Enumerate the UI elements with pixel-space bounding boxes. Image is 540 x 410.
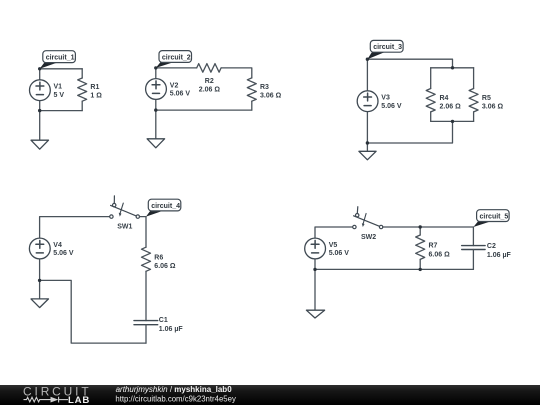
ground c5 <box>306 310 324 318</box>
wire parallel bottom rail c3 <box>431 120 474 122</box>
svg-text:C1: C1 <box>159 317 168 324</box>
value label R6 <box>154 255 176 271</box>
wire bottom rail c5 <box>315 268 473 270</box>
wire top right c2 <box>221 68 252 78</box>
junction node c1 top <box>38 67 41 70</box>
wire resistor drop c1 <box>81 69 83 78</box>
resistor R3 <box>247 78 256 101</box>
wire ground stem c3 <box>366 143 368 151</box>
wire ground stem c1 <box>39 111 41 141</box>
junction node c1 bottom <box>38 109 41 112</box>
node label circuit_4 <box>146 199 181 216</box>
svg-text:V2: V2 <box>170 83 179 90</box>
wire R5 bottom lead <box>473 112 475 122</box>
ground c2 <box>147 139 165 148</box>
junction node c5 R7 bottom <box>419 268 422 271</box>
svg-text:arthurjmyshkin / myshkina_lab0: arthurjmyshkin / myshkina_lab0 <box>116 385 233 394</box>
value label C1 <box>159 317 184 333</box>
resistor R4 <box>426 89 435 112</box>
wire R3 bottom c2 <box>251 101 253 110</box>
junction node c2 top <box>154 66 157 69</box>
wire C1 bottom c4 <box>145 325 147 343</box>
svg-text:5.06 V: 5.06 V <box>170 91 191 98</box>
junction node c2 bottom <box>154 108 157 111</box>
wire top left c2 <box>156 67 197 69</box>
junction node c3 top <box>366 58 369 61</box>
junction node c5 ground <box>313 268 316 271</box>
wire C2 top lead <box>472 227 474 246</box>
capacitor C1 <box>134 321 158 325</box>
voltage source V5 <box>305 238 326 259</box>
ground c3 <box>359 151 376 160</box>
svg-text:C2: C2 <box>487 243 496 250</box>
value label C2 <box>487 243 512 259</box>
value label V2 <box>170 83 191 98</box>
junction node c3 branch top <box>451 66 454 69</box>
value label V5 <box>329 242 350 257</box>
wire bottom rail c4 <box>40 280 146 343</box>
capacitor C2 <box>462 246 485 250</box>
svg-text:1.06 µF: 1.06 µF <box>487 252 512 259</box>
wire R7 bottom lead <box>419 259 421 269</box>
value label R5 <box>482 95 504 111</box>
svg-text:SW2: SW2 <box>361 234 376 241</box>
wire V1 top lead <box>39 69 41 80</box>
ground c4 <box>31 299 49 308</box>
switch SW2 <box>353 207 383 229</box>
node label circuit_3 <box>367 40 403 59</box>
svg-text:1 Ω: 1 Ω <box>90 93 102 100</box>
svg-text:V3: V3 <box>381 95 390 102</box>
CircuitLab logo symbol <box>24 397 69 403</box>
wire V4 bottom lead <box>39 259 41 280</box>
svg-text:R3: R3 <box>260 84 269 91</box>
value label R1 <box>90 84 102 99</box>
svg-text:LAB: LAB <box>68 395 90 405</box>
wire ground stem c2 <box>155 110 157 139</box>
junction node c5 top <box>419 225 422 228</box>
svg-text:R7: R7 <box>429 243 438 250</box>
svg-text:5 V: 5 V <box>54 92 65 99</box>
value label R4 <box>440 95 462 111</box>
svg-text:R1: R1 <box>90 84 99 91</box>
CircuitLab logo wordmark <box>23 385 92 399</box>
node label circuit_5 <box>473 210 509 227</box>
value label R3 <box>260 84 282 99</box>
node label circuit_1 <box>40 51 76 69</box>
svg-text:circuit_1: circuit_1 <box>46 54 75 61</box>
node label circuit_2 <box>156 51 192 68</box>
svg-text:V4: V4 <box>53 242 62 249</box>
wire R7 to C2 <box>420 226 473 228</box>
svg-text:5.06 V: 5.06 V <box>329 250 350 257</box>
svg-text:3.06 Ω: 3.06 Ω <box>260 93 282 100</box>
svg-text:R5: R5 <box>482 95 491 102</box>
ground c1 <box>31 140 49 149</box>
svg-text:circuit_5: circuit_5 <box>480 213 509 220</box>
svg-text:5.06 V: 5.06 V <box>381 103 402 110</box>
wire top rail left c5 <box>315 227 353 238</box>
svg-text:V1: V1 <box>54 84 63 91</box>
svg-text:1.06 µF: 1.06 µF <box>159 326 184 333</box>
wire ground stem c4 <box>39 280 41 299</box>
junction node c3 branch bottom <box>451 120 454 123</box>
svg-text:circuit_3: circuit_3 <box>373 44 402 51</box>
svg-text:http://circuitlab.com/c9k23ntr: http://circuitlab.com/c9k23ntr4e5ey <box>115 394 236 403</box>
svg-text:SW1: SW1 <box>117 224 132 231</box>
resistor R6 <box>142 247 151 271</box>
svg-text:2.06 Ω: 2.06 Ω <box>199 87 221 94</box>
switch SW1 <box>110 196 140 218</box>
wire top rail c3 <box>367 59 452 68</box>
wire R6 to C1 <box>145 271 147 320</box>
svg-text:5.06 V: 5.06 V <box>53 250 74 257</box>
svg-text:R6: R6 <box>154 255 163 262</box>
wire SW1 to R6 <box>140 217 147 248</box>
resistor R1 <box>78 78 87 101</box>
wire top rail left c4 <box>40 217 110 238</box>
svg-text:R4: R4 <box>440 95 449 102</box>
svg-text:V5: V5 <box>329 242 338 249</box>
wire ground stem c5 <box>314 269 316 310</box>
svg-text:6.06 Ω: 6.06 Ω <box>154 263 176 270</box>
value label V1 <box>54 84 65 99</box>
wire V3 bottom lead <box>366 112 368 143</box>
value label R7 <box>429 243 451 259</box>
wire bottom rail c1 <box>40 110 82 112</box>
wire SW2 to R7 <box>383 226 420 228</box>
junction node c4 <box>38 279 41 282</box>
voltage source V3 <box>357 91 378 112</box>
wire C2 bottom lead <box>472 250 474 270</box>
wire parallel top rail c3 <box>431 67 474 69</box>
resistor R7 <box>416 235 425 259</box>
svg-text:2.06 Ω: 2.06 Ω <box>440 103 462 110</box>
svg-text:circuit_4: circuit_4 <box>151 203 180 210</box>
wire R1 bottom c1 <box>81 101 83 110</box>
value label R2 <box>199 78 221 94</box>
svg-text:circuit_2: circuit_2 <box>162 54 191 61</box>
voltage source V4 <box>29 238 50 259</box>
resistor R2 <box>197 64 221 73</box>
value label V4 <box>53 242 74 257</box>
wire V5 bottom lead <box>314 259 316 269</box>
wire V2 top lead <box>155 68 157 79</box>
svg-text:3.06 Ω: 3.06 Ω <box>482 103 504 110</box>
resistor R5 <box>469 89 478 112</box>
svg-text:6.06 Ω: 6.06 Ω <box>429 251 451 258</box>
wire V2 bottom lead <box>155 99 157 110</box>
wire R4 bottom lead <box>430 112 432 122</box>
wire bottom return c3 <box>367 121 452 143</box>
wire V1 bottom lead <box>39 101 41 111</box>
junction node c3 ground <box>366 141 369 144</box>
wire V3 top lead <box>366 59 368 91</box>
wire R7 top lead <box>419 227 421 235</box>
svg-text:R2: R2 <box>205 78 214 85</box>
voltage source V2 <box>146 79 167 100</box>
wire bottom rail c2 <box>156 109 252 111</box>
wire R4 top lead <box>430 68 432 89</box>
wire top rail c1 <box>40 68 82 70</box>
wire R5 top lead <box>473 68 475 89</box>
voltage source V1 <box>30 80 51 101</box>
footer bar <box>0 385 540 405</box>
value label V3 <box>381 95 402 110</box>
